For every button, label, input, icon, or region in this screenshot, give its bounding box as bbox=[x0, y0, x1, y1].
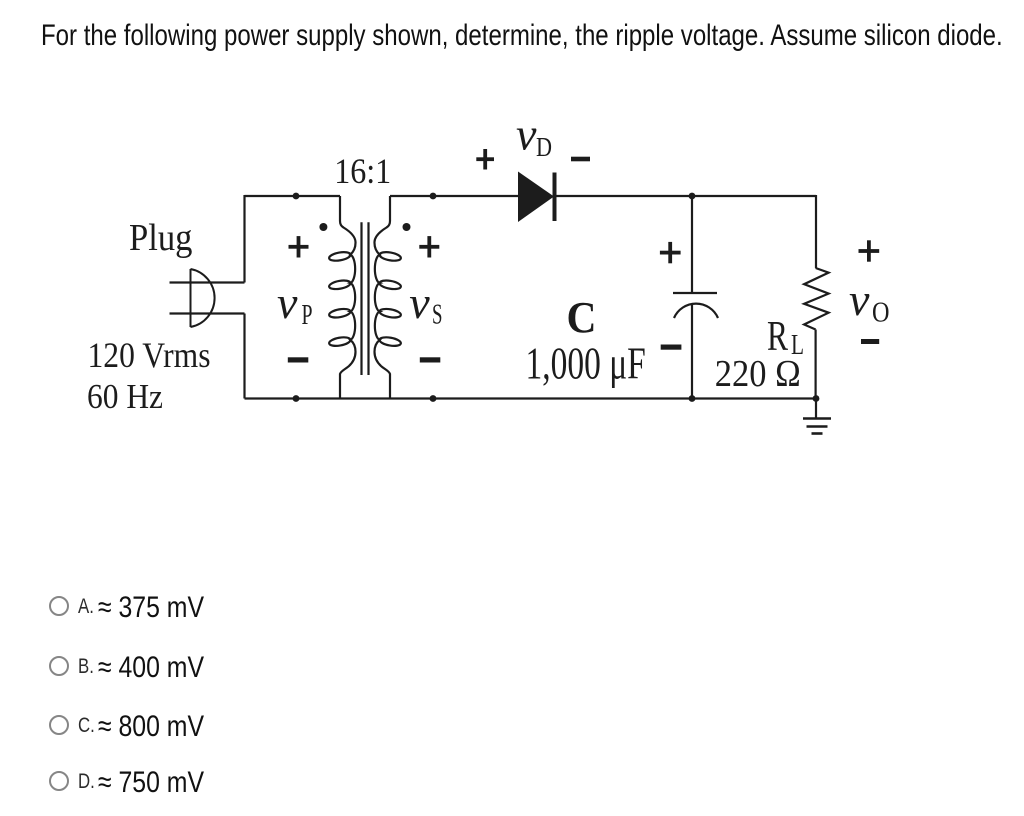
plug prong upper bbox=[170, 281, 245, 283]
svg-text:D: D bbox=[536, 132, 552, 162]
label plus diode bbox=[476, 149, 494, 170]
schematic SVG bbox=[0, 0, 1024, 500]
transformer core line left bbox=[360, 222, 362, 375]
plug body bbox=[191, 269, 215, 327]
resistor RL zigzag bbox=[804, 268, 829, 330]
junction dot top primary bbox=[293, 193, 300, 200]
junction dot top capacitor bbox=[689, 193, 696, 200]
ground bar 1 bbox=[803, 417, 831, 420]
label vO bbox=[849, 274, 890, 329]
transformer phase dot primary bbox=[319, 223, 327, 231]
junction dot bottom capacitor bbox=[689, 395, 696, 402]
svg-text:220 Ω: 220 Ω bbox=[715, 353, 801, 395]
capacitor plate bottom curved bbox=[674, 304, 718, 318]
wire right vertical bottom bbox=[814, 330, 816, 399]
label plus secondary bbox=[419, 236, 439, 257]
wire left vertical lower bbox=[243, 314, 245, 399]
option B bbox=[49, 656, 69, 676]
svg-text:1,000 μF: 1,000 μF bbox=[526, 339, 646, 389]
capacitor wire top bbox=[691, 196, 693, 293]
capacitor wire bottom bbox=[691, 305, 693, 399]
label RL bbox=[767, 314, 804, 361]
plug prong lower bbox=[170, 312, 245, 314]
transformer phase dot secondary bbox=[403, 223, 411, 231]
label plus primary bbox=[289, 236, 309, 257]
wire secondary to diode bbox=[390, 195, 518, 197]
wire right vertical top bbox=[815, 195, 817, 268]
ground bar 2 bbox=[807, 425, 828, 428]
transformer secondary winding bbox=[374, 196, 401, 399]
wire top rail left bbox=[245, 195, 341, 197]
label minus diode bbox=[571, 157, 590, 162]
transformer primary winding bbox=[328, 196, 355, 399]
option C bbox=[49, 715, 69, 735]
wire bottom rail bbox=[245, 397, 817, 399]
label vD bbox=[516, 109, 552, 163]
capacitor plate top bbox=[673, 292, 717, 294]
svg-text:P: P bbox=[302, 299, 313, 331]
svg-text:v: v bbox=[516, 109, 537, 160]
svg-text:v: v bbox=[277, 277, 298, 328]
transformer core line right bbox=[367, 222, 369, 375]
label minus capacitor bbox=[661, 345, 682, 350]
title bbox=[41, 21, 1003, 51]
svg-text:16:1: 16:1 bbox=[334, 151, 391, 191]
svg-text:v: v bbox=[849, 274, 870, 325]
svg-text:Plug: Plug bbox=[129, 217, 193, 259]
label minus output bbox=[861, 339, 879, 344]
option A bbox=[49, 596, 69, 616]
junction dot bottom resistor/ground bbox=[813, 395, 820, 402]
label plus capacitor bbox=[660, 242, 681, 263]
label plus output bbox=[859, 240, 880, 261]
svg-text:v: v bbox=[409, 277, 430, 328]
label minus secondary bbox=[420, 357, 441, 362]
junction dot top secondary bbox=[430, 193, 437, 200]
wire left vertical upper bbox=[243, 195, 245, 283]
svg-text:C: C bbox=[567, 293, 597, 342]
option D bbox=[49, 771, 69, 791]
label minus primary bbox=[288, 357, 309, 362]
diode D1 cathode bar bbox=[553, 173, 557, 222]
svg-text:60 Hz: 60 Hz bbox=[87, 377, 163, 416]
diode D1 triangle bbox=[518, 172, 554, 223]
svg-text:120 Vrms: 120 Vrms bbox=[88, 335, 211, 375]
ground stem bbox=[815, 399, 817, 418]
wire diode to right corner bbox=[554, 195, 816, 197]
label vP bbox=[277, 277, 313, 331]
ground bar 3 bbox=[812, 432, 823, 435]
label vS bbox=[409, 277, 442, 331]
svg-text:O: O bbox=[872, 297, 890, 329]
svg-text:S: S bbox=[432, 299, 443, 331]
junction dot bottom secondary bbox=[430, 395, 437, 402]
junction dot bottom primary bbox=[293, 395, 300, 402]
